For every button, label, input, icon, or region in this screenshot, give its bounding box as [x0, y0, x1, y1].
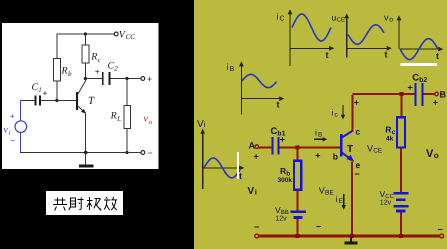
plot uCE axes: [347, 17, 389, 58]
node junction emitter rail: [350, 234, 354, 238]
battery VCC plate2 short: [396, 198, 406, 201]
plot vo axis arrowheads: [397, 15, 444, 51]
svg-text:−: −: [355, 169, 360, 179]
svg-text:12v: 12v: [380, 200, 392, 207]
svg-text:V: V: [426, 148, 434, 160]
node junction Rb: [295, 145, 299, 149]
battery VCC plate1 long: [393, 192, 408, 194]
svg-text:R: R: [90, 52, 97, 63]
wire VCC to rail: [400, 213, 402, 236]
svg-text:12v: 12v: [275, 216, 287, 223]
transistor T bar: [76, 92, 78, 110]
wire Rb bottom to base: [56, 81, 58, 101]
transistor T2 bar: [340, 134, 343, 157]
label VBE: [319, 186, 335, 197]
terminal output plus: [141, 77, 145, 81]
label VCE: [367, 144, 383, 155]
terminal bottom right open circle: [440, 234, 444, 238]
svg-text:i: i: [204, 120, 206, 129]
battery VCC plate4 short: [396, 210, 406, 213]
wire emitter down: [351, 162, 353, 237]
svg-text:t: t: [385, 50, 388, 60]
svg-text:i: i: [255, 188, 257, 197]
resistor Rb: [54, 59, 61, 82]
marker white cursor vi: [237, 152, 239, 179]
wire Rc bottom to collector: [84, 63, 86, 81]
label t of iB: [277, 100, 280, 110]
wire base: [41, 100, 77, 102]
wire vi top blue: [19, 101, 21, 121]
svg-text:B: B: [318, 132, 322, 139]
label Rb: [61, 66, 73, 78]
svg-text:i: i: [277, 12, 279, 22]
wire bottom rail right: [259, 235, 440, 238]
svg-text:CE: CE: [337, 17, 345, 24]
label T: [88, 95, 95, 107]
label iB: [227, 62, 235, 73]
ground stem: [85, 153, 87, 166]
label vo plot: [384, 13, 393, 24]
wire emitter down: [85, 113, 87, 153]
label plus left of Cb2: [408, 83, 413, 93]
marker white underline vo: [400, 63, 437, 66]
wire Rb top: [297, 148, 299, 161]
label iC: [277, 12, 285, 23]
label plus VCE: [354, 98, 359, 108]
caption text gong she ji fang: [53, 197, 117, 211]
transistor T emitter arrowhead: [81, 109, 86, 114]
svg-text:V: V: [367, 144, 373, 154]
label iE: [336, 194, 344, 205]
waveform iB curve: [242, 74, 277, 87]
plot iC axis arrowheads: [288, 9, 335, 51]
svg-text:+: +: [254, 152, 259, 162]
svg-text:i: i: [336, 194, 338, 204]
wire RL bottom: [126, 128, 128, 152]
label T2: [347, 144, 353, 155]
transistor T emitter lead: [78, 106, 86, 113]
arrow iB: [314, 138, 324, 140]
svg-text:R: R: [61, 66, 68, 77]
node junction VCC rail: [399, 234, 403, 238]
wire Rb top: [56, 33, 58, 58]
capacitor C1: [36, 96, 41, 106]
wire Rb bottom to VBB: [297, 190, 299, 210]
svg-text:A: A: [249, 141, 256, 151]
label minus output: [147, 148, 152, 158]
svg-text:+: +: [43, 88, 48, 98]
svg-text:V: V: [248, 186, 255, 197]
svg-text:CE: CE: [373, 148, 383, 155]
svg-text:b2: b2: [419, 76, 427, 84]
ground stem right: [350, 238, 352, 243]
svg-text:R: R: [280, 166, 286, 176]
terminal bottom left open circle: [255, 234, 259, 238]
ground bar right: [344, 242, 357, 245]
wire collector to C2: [85, 78, 101, 80]
svg-text:−: −: [316, 222, 321, 232]
battery VBB short plate: [293, 216, 302, 219]
node output junction dot: [125, 77, 128, 80]
svg-text:+: +: [354, 98, 359, 108]
svg-text:300k: 300k: [278, 177, 293, 184]
wire vi bottom blue: [19, 132, 21, 152]
svg-text:1: 1: [38, 86, 42, 94]
svg-text:o: o: [149, 118, 153, 126]
terminal B open circle: [435, 92, 439, 96]
label Vi plot: [197, 119, 206, 130]
label minus VBE: [316, 222, 321, 232]
label Vi circuit: [248, 186, 257, 197]
svg-text:+: +: [95, 67, 100, 77]
plot vi axes: [203, 132, 242, 189]
svg-text:o: o: [434, 151, 439, 160]
plot vo axes: [399, 19, 441, 50]
wire Rc top: [401, 94, 403, 117]
label RL: [110, 111, 122, 123]
waveform vi curve: [204, 158, 240, 178]
svg-text:−: −: [147, 148, 152, 158]
wire top rail VCC: [57, 33, 114, 35]
label t of vi: [239, 171, 242, 181]
label C1: [32, 82, 42, 94]
label vi: [3, 125, 10, 137]
svg-text:t: t: [436, 51, 439, 61]
svg-text:o: o: [389, 17, 393, 24]
node junction VBB rail: [295, 234, 299, 238]
label 300k: [278, 177, 293, 184]
arrow iE down: [343, 194, 345, 207]
label minus above left terminal: [254, 222, 259, 232]
wire vi to C1: [20, 100, 35, 102]
label 4k: [386, 136, 394, 143]
wire VBB to rail: [297, 219, 299, 236]
battery VCC plate3 long: [393, 205, 408, 208]
wire Cb2 to B: [424, 93, 435, 95]
plot uCE axis arrowheads: [344, 13, 392, 51]
label t of uCE: [385, 50, 388, 60]
label Cb1: [271, 126, 286, 138]
label plus below A: [254, 152, 259, 162]
svg-text:L: L: [116, 115, 121, 123]
label VBB: [275, 205, 289, 216]
svg-text:i: i: [227, 62, 229, 72]
svg-text:B: B: [440, 90, 447, 100]
svg-text:+: +: [408, 83, 413, 93]
node emitter rail junction dot: [84, 151, 87, 154]
svg-text:v: v: [384, 13, 389, 23]
wire Rc bottom to VCC: [400, 148, 402, 192]
label plus C1: [43, 88, 48, 98]
label Cb2: [412, 73, 427, 85]
plot iB axis arrowheads: [239, 61, 284, 101]
transistor T collector lead: [78, 80, 86, 95]
plot iC axes: [290, 13, 332, 67]
svg-text:+: +: [280, 135, 285, 145]
wire collector up: [351, 95, 353, 132]
label VCC: [119, 30, 135, 42]
capacitor Cb2: [416, 83, 423, 106]
label vo red: [144, 114, 153, 126]
label c: [356, 127, 361, 137]
svg-text:b: b: [333, 152, 338, 162]
svg-text:CC: CC: [126, 33, 136, 41]
battery VBB long plate: [291, 211, 306, 214]
svg-text:T: T: [347, 144, 353, 155]
waveform uCE curve: [348, 25, 384, 45]
label e: [356, 160, 361, 170]
label b: [333, 152, 338, 162]
svg-text:V: V: [319, 186, 325, 196]
resistor RL: [124, 105, 131, 128]
label t of iC: [326, 50, 329, 60]
label Rb right: [280, 166, 290, 178]
source vi circle: [15, 121, 27, 133]
label A: [249, 141, 256, 151]
wire RL top: [126, 79, 128, 106]
svg-text:t: t: [239, 171, 242, 181]
capacitor Cb1: [272, 137, 278, 155]
label 12v Vcc: [380, 200, 392, 207]
label iB circuit: [315, 128, 322, 139]
svg-text:T: T: [88, 95, 95, 107]
wire Rc top: [84, 34, 86, 45]
svg-text:4k: 4k: [386, 136, 394, 143]
resistor Rb right: [294, 161, 301, 190]
label plus below B: [433, 98, 438, 108]
label minus above right terminal: [438, 225, 443, 235]
terminal A open circle: [255, 145, 259, 149]
svg-text:+: +: [315, 151, 320, 161]
svg-text:R: R: [385, 125, 391, 135]
wire A to Cb1: [259, 147, 272, 149]
label 12v VBB: [275, 216, 287, 223]
wire bottom rail: [20, 152, 141, 154]
label Rc right: [385, 125, 395, 137]
transistor T2 emitter arrowhead: [347, 155, 355, 162]
svg-text:b: b: [68, 70, 72, 78]
svg-text:2: 2: [114, 65, 118, 73]
plot iB axes: [241, 65, 281, 115]
label plus VBE: [315, 151, 320, 161]
terminal VCC open circle: [114, 32, 118, 36]
svg-text:c: c: [356, 127, 361, 137]
caption white box: [46, 191, 123, 215]
svg-text:BE: BE: [325, 190, 334, 197]
wire Cb1 to base: [280, 147, 341, 149]
label Vcc: [380, 189, 395, 200]
svg-text:−: −: [254, 222, 259, 232]
label minus VCE: [355, 169, 360, 179]
plot vi axis arrowheads: [200, 129, 244, 171]
svg-text:i: i: [315, 128, 317, 138]
label uCE: [332, 13, 345, 24]
right schematic olive panel: [194, 0, 447, 249]
terminal output minus: [141, 151, 145, 155]
node Rc top junction dot: [84, 32, 87, 35]
svg-text:t: t: [277, 100, 280, 110]
svg-text:E: E: [339, 198, 344, 205]
wire C2 to output: [110, 78, 141, 80]
label plus output: [147, 74, 152, 84]
svg-text:−: −: [10, 136, 15, 146]
label minus vi: [10, 136, 15, 146]
label plus right of Cb1: [280, 135, 285, 145]
waveform vo curve: [400, 39, 438, 60]
label plus C2: [95, 67, 100, 77]
label ic circuit: [332, 108, 339, 119]
svg-text:R: R: [110, 111, 117, 122]
transistor T2 emitter lead: [342, 153, 351, 160]
transistor T2 collector lead: [342, 131, 353, 138]
label C2: [108, 61, 119, 73]
svg-text:+: +: [10, 111, 15, 121]
arrow ic down: [342, 105, 344, 117]
node collector C2 junction dot: [84, 77, 87, 80]
svg-text:+: +: [433, 98, 438, 108]
waveform iC curve: [292, 14, 331, 41]
resistor Rc right: [397, 117, 405, 147]
node RL bottom junction dot: [125, 151, 128, 154]
label B: [440, 90, 447, 100]
node base junction dot: [55, 99, 58, 102]
label Vo circuit: [426, 148, 439, 160]
label t of vo: [436, 51, 439, 61]
ground bar: [79, 165, 94, 168]
svg-text:B: B: [230, 66, 235, 73]
label plus vi: [10, 111, 15, 121]
resistor Rc: [82, 45, 89, 63]
node junction Rc top: [399, 92, 403, 96]
svg-text:−: −: [438, 225, 443, 235]
svg-text:+: +: [147, 74, 152, 84]
svg-text:C: C: [280, 16, 285, 23]
svg-text:i: i: [332, 108, 334, 118]
svg-text:t: t: [326, 50, 329, 60]
left schematic white panel: [2, 23, 159, 169]
label Rc: [90, 52, 102, 64]
wire top rail collector to Cb2: [352, 93, 414, 95]
capacitor C2: [103, 72, 110, 85]
